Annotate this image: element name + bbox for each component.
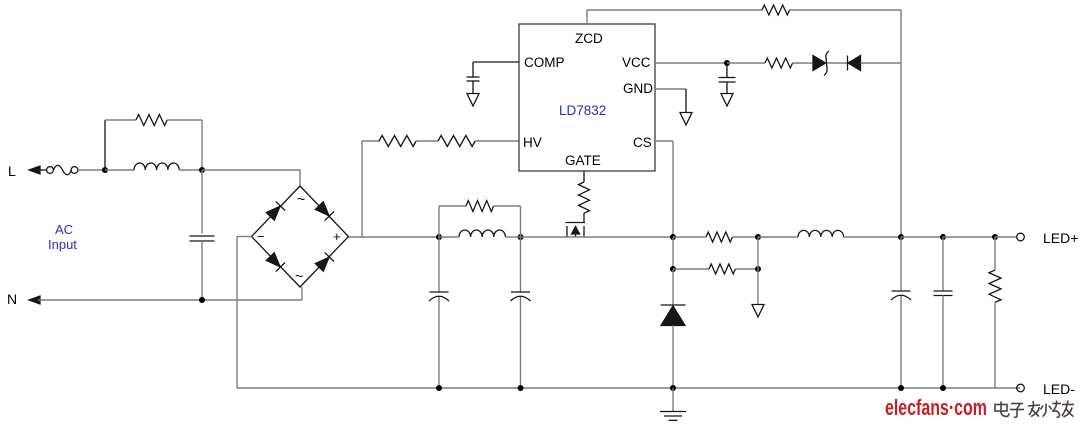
resistor R9 (sense bottom) [709, 264, 735, 274]
wire COMP pin [473, 61, 519, 63]
wire node P to LED+ terminal [995, 236, 1017, 238]
capacitor C7 lead bottom [942, 296, 944, 389]
svg-text:CS: CS [633, 135, 652, 150]
node C junction (N / C1) [199, 297, 205, 303]
wire pi top right [494, 205, 521, 207]
capacitor C5 lead bottom [520, 297, 522, 388]
resistor R10 [989, 270, 1001, 302]
wire node D to L2 [439, 236, 459, 238]
IC U1 LD7832 box [519, 24, 655, 171]
svg-text:LED-: LED- [1043, 381, 1075, 397]
capacitor C1 (X-cap) lead top [201, 170, 203, 234]
zener diode ZD1 [813, 56, 826, 71]
wire CS down to switch node [672, 141, 674, 237]
capacitor C6 curved plate [891, 295, 911, 300]
resistor R5 (VCC supply) [765, 58, 793, 68]
capacitor C3 plates [719, 77, 736, 79]
ground arrow (sense divider) [752, 305, 764, 318]
capacitor C7 (output film) lead [942, 237, 944, 291]
svg-text:−: − [257, 229, 265, 244]
wire node B to bridge top [202, 170, 300, 186]
wire D5 to right vertical [861, 62, 902, 64]
capacitor C6 plate [892, 290, 911, 292]
node O junction [940, 234, 946, 240]
capacitor C2 (COMP) lead [472, 62, 474, 77]
char dian [995, 402, 1010, 417]
node E junction (filter) [518, 234, 524, 240]
capacitor C4 lead bottom [438, 297, 440, 388]
inductor L3 [798, 230, 844, 237]
earth ground bars [660, 411, 686, 413]
HV branch riser [361, 141, 363, 237]
wire node J to R9 [673, 268, 709, 270]
resistor R8 (sense top) [706, 232, 732, 242]
node J junction [670, 266, 676, 272]
resistor R3 (HV series 2) [438, 136, 475, 147]
capacitor C6 (output bulk) lead [900, 237, 902, 291]
bridge diamond outline [252, 186, 349, 287]
node R junction (C7 bottom) [940, 385, 946, 391]
wire VCC pin [655, 62, 727, 64]
svg-text:N: N [7, 291, 17, 307]
wire top bypass left [105, 119, 136, 121]
wire node I to L3 [758, 236, 798, 238]
wire node N to node O [901, 236, 943, 238]
diode D6 (freewheel) cathode bar [661, 304, 686, 306]
wire node J down to diode [672, 269, 674, 305]
diode D5 (reverse) [847, 56, 849, 71]
capacitor C6 lead bottom [900, 296, 902, 388]
capacitor C2 plates [467, 76, 480, 78]
capacitor C5 curved plate [511, 296, 531, 301]
wire pi-filter top left riser [438, 206, 440, 237]
wire R5 to zener [793, 62, 813, 64]
ground arrow (GND pin) [680, 113, 692, 126]
char fa [1028, 401, 1040, 417]
diode D6 lead bottom [672, 326, 674, 389]
node G junction (C5 bottom) [518, 385, 524, 391]
wire ZCD top rail right [790, 9, 901, 11]
earth ground lead [672, 388, 674, 411]
terminal LED+ [1017, 233, 1025, 241]
wire R9 to node K [735, 268, 758, 270]
wire top bypass right [167, 119, 202, 121]
wire fuse to node A [78, 169, 105, 171]
svg-text:AC: AC [55, 222, 73, 237]
wire bridge minus to left rail [237, 236, 252, 238]
svg-text:ZCD: ZCD [575, 31, 603, 46]
capacitor C4 plate [430, 291, 449, 293]
wire left vertical to bottom rail [236, 237, 238, 389]
wire node H down to node J [672, 237, 674, 269]
wire pi top right riser [520, 206, 522, 237]
svg-text:L: L [8, 163, 16, 179]
resistor R10 lead bottom [994, 302, 996, 388]
wire bridge plus to rail [349, 236, 440, 238]
capacitor C7 plates [934, 290, 953, 292]
wire HV left [362, 140, 380, 142]
wire L2 to node E [505, 236, 520, 238]
capacitor C1 lead bottom [201, 241, 203, 300]
wire GND pin [655, 88, 686, 90]
ground arrow (COMP) [472, 81, 474, 93]
wire N to bridge bottom [301, 287, 303, 300]
wire bottom rail [237, 387, 1021, 389]
wire N horizontal [38, 299, 302, 301]
bridge diode D2 (top-right) [315, 201, 334, 220]
wire CS pin [655, 140, 673, 142]
wire node A up [104, 120, 106, 170]
svg-text:LD7832: LD7832 [559, 103, 606, 118]
node N junction [898, 234, 904, 240]
node F junction (C4 bottom) [436, 385, 442, 391]
svg-text:GND: GND [623, 81, 653, 96]
svg-text:LED+: LED+ [1043, 230, 1078, 246]
bridge diode D1 (left-top) [266, 201, 285, 220]
svg-text:~: ~ [295, 268, 303, 284]
resistor R1 (damping across L1) [136, 115, 167, 126]
wire R8 to node I [732, 236, 758, 238]
char zi [1010, 404, 1024, 418]
bridge diode D4 (bottom-right) [315, 252, 334, 271]
capacitor C5 (bulk 2) lead [520, 237, 522, 292]
wire L3 to node N [844, 236, 901, 238]
svg-text:elecfans·com: elecfans·com [885, 395, 987, 420]
resistor R2 (HV series 1) [379, 136, 416, 147]
capacitor C5 plate [511, 291, 530, 293]
fuse F1 [47, 167, 54, 174]
ground arrow (VCC cap) [726, 82, 728, 93]
wire node E to mosfet [521, 236, 674, 238]
char shao [1041, 401, 1062, 418]
resistor R6 (gate) [579, 182, 590, 213]
node P junction [992, 234, 998, 240]
wire GND down [685, 89, 687, 112]
wire R3 to HV pin [475, 140, 519, 142]
wire zener to D5 [827, 62, 847, 64]
svg-text:COMP: COMP [524, 55, 565, 70]
node VCC junction [724, 60, 730, 66]
node B junction [199, 167, 205, 173]
wire switch node to R8 [673, 236, 706, 238]
inductor L1 [134, 163, 179, 170]
wire N input arrow [29, 296, 40, 304]
svg-text:Input: Input [48, 237, 77, 252]
wire VCC to R5 [727, 62, 765, 64]
wire L input arrow [29, 166, 40, 174]
svg-text:GATE: GATE [565, 153, 601, 168]
capacitor C4 curved plate [429, 296, 449, 301]
wire pi top left [439, 205, 466, 207]
node I junction [755, 234, 761, 240]
svg-text:~: ~ [297, 191, 305, 207]
diode D6 triangle [661, 306, 685, 326]
capacitor C1 plates [190, 235, 215, 237]
wire node A to L1 [105, 169, 134, 171]
wire right vertical to LED+ rail [900, 10, 902, 237]
wire node O to node P [943, 236, 995, 238]
bridge diode D3 (left-bottom) [266, 252, 285, 271]
node Q junction (C6 bottom) [898, 385, 904, 391]
svg-text:VCC: VCC [622, 55, 651, 70]
logo chinese characters 电子发烧友 [995, 401, 1074, 418]
capacitor C3 (VCC) lead [726, 63, 728, 77]
node M junction (bottom rail / earth) [670, 385, 676, 391]
wire bypass right down [201, 120, 203, 170]
transistor Q1 MOSFET [566, 222, 586, 224]
resistor R10 (dummy load) lead [994, 237, 996, 270]
wire node I to node K [757, 237, 759, 269]
node H junction (switch node) [670, 234, 676, 240]
wire between HV resistors [416, 140, 438, 142]
wire ZCD riser [586, 10, 588, 24]
wire ZCD top rail left [587, 9, 762, 11]
node A junction [102, 167, 108, 173]
wire node K down [757, 269, 759, 304]
terminal LED- [1017, 384, 1025, 392]
resistor R7 (across L2) [466, 201, 494, 212]
char you [1062, 401, 1074, 418]
wire L1 to node B [179, 169, 202, 171]
node D junction (input cap) [436, 234, 442, 240]
wire R6 to gate plate [583, 213, 585, 222]
svg-text:HV: HV [523, 135, 542, 150]
resistor R4 (ZCD feedback) [762, 5, 790, 15]
wire bottom rail to LED- terminal [1016, 387, 1018, 389]
wire GATE pin down [583, 171, 585, 182]
capacitor C4 (bulk 1) lead [438, 237, 440, 292]
node K junction [755, 266, 761, 272]
inductor L2 [459, 230, 505, 237]
svg-text:+: + [333, 229, 341, 244]
